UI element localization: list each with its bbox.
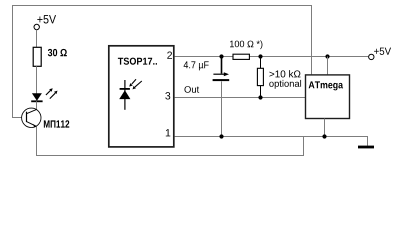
resistor R3 10k optional [257, 57, 301, 98]
wire R1 to LED [36, 66, 38, 93]
wire Vs supply from pin2 to +5V [175, 56, 369, 58]
wire left rail [12, 5, 14, 118]
node junction [325, 54, 329, 58]
wire Out from pin3 to ATmega [175, 97, 306, 99]
wire ATmega gnd pin [324, 119, 326, 138]
pin 2 label [167, 51, 172, 58]
label 30 Ohm [48, 49, 67, 56]
node junction [258, 54, 262, 58]
label TSOP17.. [118, 58, 157, 65]
wire ground rail [175, 136, 369, 138]
label 100 Ohm *) [230, 40, 262, 49]
wire top rail to ATmega [311, 5, 313, 74]
resistor R2 100ohm [233, 54, 249, 59]
resistor R1 30ohm [33, 47, 41, 66]
capacitor C1 [213, 57, 230, 137]
label MP112 [44, 120, 69, 127]
LED D1 [31, 88, 57, 109]
transistor Q1 MP112 [22, 108, 41, 127]
IC U1 TSOP17 box [109, 46, 174, 147]
wire to ATmega vcc pin [327, 57, 329, 75]
node junction [219, 54, 223, 58]
node junction [258, 95, 262, 99]
IC U2 ATmega box [306, 75, 350, 119]
label 4.7 uF [184, 61, 209, 70]
node junction [322, 134, 326, 138]
label +5V (left) [37, 15, 56, 23]
photodiode D2 inside TSOP [119, 79, 142, 110]
node +5V left terminal [34, 24, 39, 29]
node junction [219, 134, 223, 138]
label +5V (right) [374, 48, 391, 55]
label optional [269, 80, 301, 89]
wire to ground symbol [367, 137, 369, 146]
wire base [12, 117, 22, 119]
pin 1 label [166, 129, 171, 136]
label Out [184, 86, 199, 93]
label ATmega [309, 81, 343, 90]
wire top rail [12, 5, 312, 7]
node +5V right terminal [369, 54, 374, 59]
label >10 kOhm [269, 70, 300, 77]
ground [358, 146, 374, 149]
pin 3 label [165, 92, 170, 99]
wire +5V to R1 [36, 30, 38, 48]
wire emitter return [37, 127, 304, 156]
